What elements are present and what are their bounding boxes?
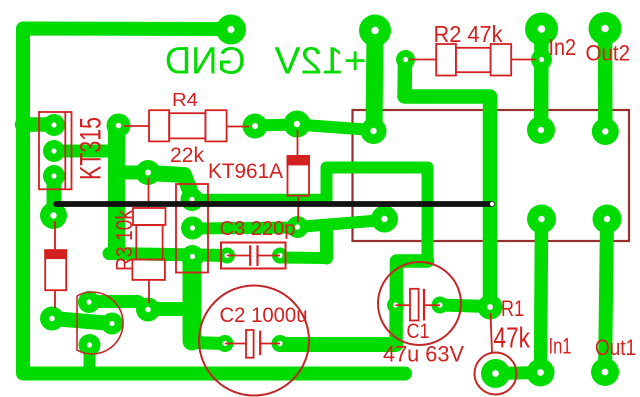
svg-text:R1: R1	[501, 296, 524, 321]
svg-text:In2: In2	[549, 34, 577, 60]
svg-text:GND: GND	[165, 41, 246, 83]
svg-text:R3 10k: R3 10k	[111, 210, 137, 271]
svg-text:47k: 47k	[494, 323, 531, 355]
svg-text:Out2: Out2	[586, 41, 631, 66]
svg-text:C3 220p: C3 220p	[220, 217, 296, 240]
svg-text:+12V: +12V	[274, 41, 367, 83]
svg-text:KT961A: KT961A	[208, 160, 283, 183]
svg-text:R4: R4	[172, 89, 198, 110]
svg-text:Out1: Out1	[595, 335, 636, 360]
svg-text:C1: C1	[407, 319, 430, 343]
svg-text:22k: 22k	[170, 144, 205, 167]
svg-text:C2 1000u: C2 1000u	[220, 303, 308, 327]
svg-text:In1: In1	[549, 334, 572, 359]
svg-text:KT315: KT315	[75, 117, 108, 180]
svg-text:47u 63V: 47u 63V	[383, 342, 464, 367]
svg-text:R2 47k: R2 47k	[434, 21, 503, 47]
